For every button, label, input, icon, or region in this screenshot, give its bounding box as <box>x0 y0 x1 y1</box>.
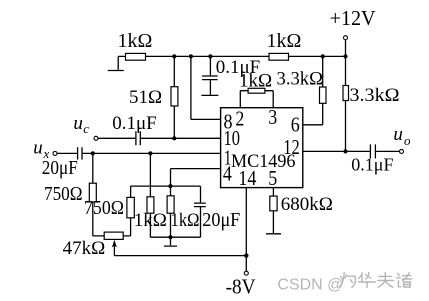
svg-text:u: u <box>73 113 83 134</box>
svg-text:u: u <box>393 124 403 145</box>
svg-text:51Ω: 51Ω <box>129 87 162 108</box>
svg-text:1kΩ: 1kΩ <box>239 70 272 91</box>
svg-text:3.3kΩ: 3.3kΩ <box>350 85 400 106</box>
svg-text:750Ω: 750Ω <box>84 197 124 219</box>
svg-text:c: c <box>83 121 89 136</box>
svg-text:CSDN @: CSDN @ <box>277 277 343 294</box>
svg-text:x: x <box>43 146 50 161</box>
svg-text:1kΩ: 1kΩ <box>118 30 153 52</box>
svg-text:680kΩ: 680kΩ <box>281 194 333 215</box>
svg-text:MC1496: MC1496 <box>231 151 296 172</box>
svg-text:-8V: -8V <box>226 274 256 298</box>
svg-text:1kΩ: 1kΩ <box>134 210 167 231</box>
svg-text:u: u <box>33 137 43 158</box>
svg-text:1kΩ: 1kΩ <box>171 210 200 231</box>
svg-text:+12V: +12V <box>330 6 376 30</box>
svg-text:0.1μF: 0.1μF <box>351 155 393 175</box>
svg-text:47kΩ: 47kΩ <box>63 238 106 259</box>
svg-text:3: 3 <box>268 105 277 129</box>
svg-text:6: 6 <box>291 112 300 136</box>
svg-text:20μF: 20μF <box>202 209 240 231</box>
svg-text:0.1μF: 0.1μF <box>112 113 157 134</box>
svg-text:1kΩ: 1kΩ <box>267 30 302 52</box>
svg-text:3.3kΩ: 3.3kΩ <box>277 69 324 90</box>
svg-text:750Ω: 750Ω <box>44 183 83 205</box>
svg-text:o: o <box>404 133 411 148</box>
